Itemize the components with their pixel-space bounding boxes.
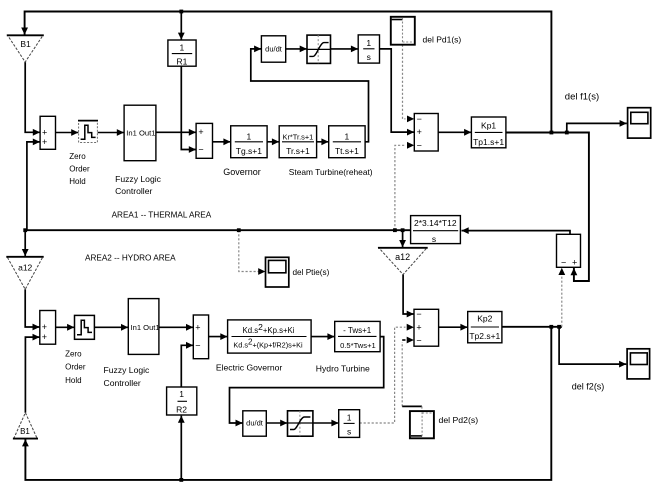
svg-text:+: + <box>42 332 47 342</box>
svg-text:B1: B1 <box>20 39 31 49</box>
wire Fuzzy Logic Controller output to thermal sum2 + input <box>156 131 196 133</box>
svg-text:- Tws+1: - Tws+1 <box>343 326 372 335</box>
wire saturation 2 to integrator 1/s 2 <box>313 422 339 424</box>
svg-text:del Pd2(s): del Pd2(s) <box>439 415 479 425</box>
svg-text:Kr*Tr.s+1: Kr*Tr.s+1 <box>283 132 314 141</box>
sum block thermal sum1 <box>40 116 55 149</box>
svg-text:s: s <box>432 234 436 244</box>
svg-text:Zero: Zero <box>69 152 86 161</box>
svg-text:In1 Out1: In1 Out1 <box>131 323 160 332</box>
wire Zero Order Hold 2 to Fuzzy Logic Controller 2 <box>95 326 129 328</box>
svg-text:+: + <box>416 322 421 332</box>
svg-text:Controller: Controller <box>104 378 141 388</box>
wire a12 (left) output to hydro sum1 upper input <box>25 289 40 327</box>
wire B1 output to thermal sum1 upper input <box>25 62 40 133</box>
svg-text:R2: R2 <box>176 405 187 415</box>
svg-text:Order: Order <box>65 363 86 372</box>
svg-text:Kp2: Kp2 <box>477 314 492 324</box>
wire Electric Governor to Hydro Turbine <box>311 336 335 338</box>
svg-text:del f1(s): del f1(s) <box>565 92 599 103</box>
svg-text:+: + <box>42 322 47 332</box>
gain B1 (top left, pointing down) <box>8 35 43 62</box>
block Kp1/(Tp1.s+1) power system 1 <box>471 117 506 148</box>
wire del f2 bottom feedback to B1 (lower) gain <box>25 327 551 480</box>
block Hydro Turbine (-Tws+1)/(0.5*Tws+1) <box>335 321 380 351</box>
svg-text:Tt.s+1: Tt.s+1 <box>335 146 359 156</box>
wire steam turbine output feedback loop to du/dt <box>251 49 369 142</box>
svg-text:du/dt: du/dt <box>265 45 283 54</box>
svg-text:Electric Governor: Electric Governor <box>216 362 283 372</box>
svg-text:0.5*Tws+1: 0.5*Tws+1 <box>340 341 376 350</box>
svg-text:+: + <box>417 127 422 137</box>
svg-text:Tg.s+1: Tg.s+1 <box>236 146 262 156</box>
block integrator 1/s (thermal) <box>358 35 379 63</box>
sum block thermal sum3 <box>414 114 438 152</box>
svg-text:Tr.s+1: Tr.s+1 <box>286 146 310 156</box>
svg-text:Controller: Controller <box>115 186 152 196</box>
svg-text:+: + <box>195 323 200 333</box>
svg-text:s: s <box>347 427 351 437</box>
wire hydro sum3 output to Kp2 <box>439 326 468 328</box>
svg-text:+: + <box>572 257 577 267</box>
svg-text:+: + <box>42 127 47 137</box>
wire del Ptie: T12 output across to left column <box>25 229 410 231</box>
gain B1 (bottom left, pointing up) <box>14 413 38 439</box>
wire 1/R1 output down to thermal sum2 - input <box>181 66 196 149</box>
block Fuzzy Logic Controller (hydro) <box>128 299 159 355</box>
wire del Ptie arrow into a12 gain (left) <box>24 230 26 256</box>
sum block hydro sum1 <box>40 311 56 345</box>
svg-text:Tp1.s+1: Tp1.s+1 <box>473 137 504 147</box>
block Kp2/(Tp2.s+1) power system 2 <box>468 312 502 343</box>
svg-text:Hydro Turbine: Hydro Turbine <box>316 364 370 374</box>
svg-text:a12: a12 <box>395 252 410 262</box>
svg-text:+: + <box>42 137 47 147</box>
svg-text:Steam Turbine(reheat): Steam Turbine(reheat) <box>289 167 373 177</box>
svg-text:−: − <box>416 335 421 345</box>
svg-text:del f2(s): del f2(s) <box>572 382 605 392</box>
svg-text:1: 1 <box>247 132 252 142</box>
svg-text:Fuzzy Logic: Fuzzy Logic <box>104 365 151 375</box>
svg-text:Fuzzy Logic: Fuzzy Logic <box>115 174 162 184</box>
block du/dt derivative (thermal) <box>261 36 285 62</box>
svg-text:Tp2.s+1: Tp2.s+1 <box>469 331 500 341</box>
block Steam Turbine 1/(Tt.s+1) <box>329 126 365 158</box>
svg-text:−: − <box>198 145 203 155</box>
svg-text:du/dt: du/dt <box>246 419 264 428</box>
wire del Ptie arrow into a12 gain (middle) <box>402 230 404 247</box>
source step del Pd1 <box>391 17 415 45</box>
block 1/R1 droop gain <box>168 40 196 66</box>
wire B1 (lower) output up to hydro sum1 lower input <box>25 337 39 413</box>
wire Fuzzy Logic Controller 2 output to hydro sum2 + input <box>159 326 193 328</box>
scope del f1 <box>628 108 651 138</box>
junction dots <box>179 10 183 14</box>
scope del f2 <box>627 349 650 379</box>
block integrator 1/s (hydro) <box>339 410 360 438</box>
wire thermal sum2 output to Governor <box>213 141 231 143</box>
wire thermal sum1 output to Zero Order Hold <box>56 132 79 134</box>
svg-text:s: s <box>367 52 371 62</box>
svg-text:del Ptie(s): del Ptie(s) <box>293 268 330 277</box>
wire a12 (middle) output down to hydro sum3 upper input <box>403 275 414 315</box>
wire top line junction down into 1/R1 block <box>180 12 182 40</box>
sum block hydro sum2 <box>193 315 208 359</box>
svg-text:del Pd1(s): del Pd1(s) <box>423 35 462 45</box>
wire tie-line sum output to 2*3.14*T12 block <box>462 231 571 235</box>
svg-text:Order: Order <box>69 165 90 174</box>
wire thermal sum3 output to Kp1 <box>438 131 471 133</box>
svg-text:AREA1 -- THERMAL AREA: AREA1 -- THERMAL AREA <box>112 210 212 219</box>
wire del f2: Kp2 output to junction <box>502 326 562 328</box>
wire (grey) del Ptie up to thermal sum3 lower - input <box>395 145 406 230</box>
svg-text:−: − <box>417 140 422 150</box>
source step del Pd2 <box>410 411 434 438</box>
svg-text:−: − <box>417 114 422 124</box>
svg-text:Zero: Zero <box>65 350 82 359</box>
svg-text:−: − <box>195 340 200 350</box>
block 1/R2 droop gain <box>167 387 197 415</box>
sum block tie-line (- +) <box>557 234 581 267</box>
svg-text:−: − <box>561 257 566 267</box>
wire du/dt 2 to saturation 2 <box>266 422 287 424</box>
svg-text:1: 1 <box>180 43 185 53</box>
svg-text:1: 1 <box>345 132 350 142</box>
svg-text:Hold: Hold <box>65 376 81 385</box>
block saturation (hydro) <box>288 411 313 436</box>
svg-text:Governor: Governor <box>223 167 261 177</box>
svg-text:1: 1 <box>366 38 371 48</box>
wire Governor to Steam Turbine block 1 <box>267 141 279 143</box>
block saturation (thermal) <box>307 35 331 63</box>
block 2*3.14*T12/s tie line <box>411 216 461 244</box>
wire Steam Turbine block1 to block2 <box>317 141 329 143</box>
wire hydro sum1 output to Zero Order Hold 2 <box>56 326 75 328</box>
block Steam Turbine (Kr*Tr.s+1)/(Tr.s+1) <box>279 126 316 158</box>
sum block thermal sum2 <box>196 123 212 158</box>
wire (grey) del Ptie branch down to Scope del Ptie <box>239 230 259 271</box>
svg-text:2*3.14*T12: 2*3.14*T12 <box>414 218 457 228</box>
svg-text:−: − <box>416 309 421 319</box>
wire del Pd2 step connection to hydro sum3 lower - input <box>401 342 403 406</box>
block du/dt derivative (hydro) <box>243 411 266 436</box>
gain a12 (middle, pointing down) <box>379 248 427 275</box>
block Zero Order Hold (thermal) <box>79 121 98 143</box>
block Electric Governor <box>228 320 312 353</box>
svg-text:AREA2 -- HYDRO AREA: AREA2 -- HYDRO AREA <box>85 254 176 263</box>
svg-text:1: 1 <box>347 413 352 423</box>
wire del f1 feedback: Kp1 output up and across top to B1 gain <box>25 12 552 133</box>
block Zero Order Hold (hydro) <box>75 315 95 339</box>
wire del f1: Kp1 output right, down and into tie-line sum + input <box>506 133 589 282</box>
svg-text:+: + <box>198 127 203 137</box>
wire 1/R2 output up to hydro sum2 - input <box>181 345 193 387</box>
wire Zero Order Hold to Fuzzy Logic Controller <box>98 132 124 134</box>
wire hydro turbine output loop down to du/dt 2 <box>230 337 384 423</box>
svg-text:Hold: Hold <box>69 177 85 186</box>
scope del Ptie <box>266 257 289 287</box>
svg-text:B1: B1 <box>20 427 30 436</box>
svg-text:1: 1 <box>179 389 184 399</box>
svg-text:a12: a12 <box>18 263 32 273</box>
wire du/dt to saturation <box>286 48 307 50</box>
block Fuzzy Logic Controller (thermal) <box>124 105 156 161</box>
wire (grey) del f2 up to tie-line sum - input <box>561 274 563 327</box>
wire (grey) del Pd1 step down to thermal sum3 upper - input <box>403 45 406 119</box>
sum block hydro sum3 <box>414 309 439 346</box>
svg-text:Kp1: Kp1 <box>481 121 496 131</box>
wire del f1 branch to Scope del f1 <box>567 123 627 132</box>
wire bottom line junction up into 1/R2 block <box>180 416 182 480</box>
svg-text:In1 Out1: In1 Out1 <box>126 129 155 138</box>
gain a12 (left, pointing down) <box>7 257 43 290</box>
wire saturation to integrator 1/s <box>331 48 359 50</box>
block Governor 1/(Tg.s+1) <box>231 126 267 158</box>
wire integrator 1/s down to thermal sum3 + input <box>380 49 415 132</box>
svg-text:R1: R1 <box>176 56 187 66</box>
wire (grey) integrator 1/s 2 output up to hydro sum3 + input <box>360 327 406 423</box>
wire del Ptie up to thermal sum1 lower input <box>27 142 40 230</box>
wire del f2 branch down and right to Scope del f2 <box>559 327 626 364</box>
wire hydro sum2 output to Electric Governor <box>209 336 228 338</box>
